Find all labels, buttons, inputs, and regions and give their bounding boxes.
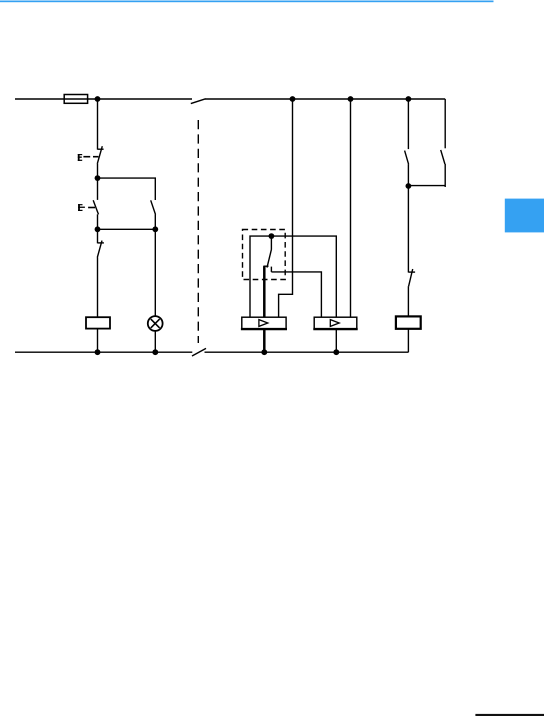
- wire: NC contact K3b to coil K4: [407, 286, 409, 316]
- junction dot node E: [406, 183, 412, 189]
- junction dot top rail / K3 wire: [348, 96, 354, 102]
- NC contact K3b: [408, 269, 415, 286]
- time relay coil K2 (with amplifier triangle): [241, 317, 287, 329]
- top supply rail left segment: [15, 98, 192, 100]
- dashed enclosure of relay contact K2: [243, 230, 286, 280]
- bottom return rail right segment: [205, 351, 409, 353]
- junction dot node C: [152, 226, 158, 232]
- junction dot coil K2 / bottom rail: [261, 349, 267, 355]
- time relay coil K3 (with amplifier triangle): [313, 317, 357, 329]
- control section divider (dashed): [197, 120, 199, 343]
- wire: node E down to NC contact K3b: [407, 186, 409, 273]
- junction dot coil K1 / bottom rail: [95, 349, 101, 355]
- wire: node D right and down to coil K3: [271, 236, 336, 317]
- top supply rail right segment: [205, 98, 445, 100]
- coil K1: [86, 317, 110, 328]
- bottom return rail left segment: [15, 351, 192, 353]
- lamp H1: [148, 316, 163, 331]
- wire: node A down to S1: [97, 178, 99, 200]
- NO contact K2a: [405, 151, 409, 165]
- mechanical dash of contact S1: [88, 207, 95, 209]
- junction dot node A: [95, 175, 101, 181]
- junction dot coil K3 / bottom rail: [333, 349, 339, 355]
- thick wire: coil K2 to bottom rail: [263, 329, 266, 352]
- junction dot top rail / right branch: [406, 96, 412, 102]
- wire: NC contact to coil K1: [97, 257, 99, 317]
- wire: K2a to node E: [407, 164, 409, 186]
- NO holding contact K1 (lamp branch): [151, 200, 156, 214]
- junction dot top rail / fuse branch: [95, 96, 101, 102]
- blue header rule: [0, 1, 494, 3]
- changeover contact K2: blade: [267, 250, 271, 268]
- wire: node B to node C: [98, 228, 156, 230]
- wire: coil K4 to bottom rail: [407, 329, 409, 352]
- thick wire: contact tip to coil K2: [263, 266, 266, 317]
- NC emergency contact S0 (E): [83, 146, 103, 164]
- wire: node A to lamp branch corner: [98, 178, 156, 200]
- junction dot lamp / bottom rail: [152, 349, 158, 355]
- fuse F1: [64, 95, 87, 104]
- NO start contact S1 (E): [93, 200, 98, 214]
- label E of contact S1: [78, 204, 85, 211]
- bottom rail break slash: [192, 348, 206, 356]
- junction dot top rail / K2 wire: [290, 96, 296, 102]
- blue section tab: [505, 199, 544, 233]
- wire: K1 contact to node C: [154, 214, 156, 229]
- junction dot node B: [95, 226, 101, 232]
- wire: node D left and down to coil K2: [250, 236, 271, 317]
- wire: K3a down and left to node E: [408, 164, 445, 187]
- NC contact K3 in K1 branch: [97, 241, 104, 258]
- wire: node B to NC contact K3: [97, 229, 99, 243]
- wire: top rail node down to NO contact K2a: [407, 99, 409, 149]
- wire: node C to lamp H1: [154, 229, 156, 316]
- wire: top rail down to coil K3: [350, 99, 352, 317]
- changeover contact K2: moving tip cap: [263, 265, 268, 267]
- changeover contact K2: upper terminal: [270, 236, 272, 249]
- wire: coil K1 to bottom rail: [97, 329, 99, 353]
- wire: lower terminal right and down to coil K3: [271, 272, 321, 317]
- bottom-right page rule: [475, 714, 544, 716]
- junction dot node D inside enclosure: [269, 233, 275, 239]
- wire: top rail corner down to NO contact K3a: [444, 99, 446, 148]
- wire: S0 to node A: [97, 164, 99, 179]
- label E of contact S0: [78, 154, 82, 161]
- coil K4: [396, 316, 421, 328]
- wire: fuse to first contact: [97, 99, 99, 150]
- NO contact K3a: [441, 150, 445, 164]
- changeover contact K2: lower terminal: [270, 267, 272, 272]
- wire: lamp H1 to bottom rail: [154, 331, 156, 352]
- wire: top rail down, left to coil K2: [279, 99, 293, 317]
- top rail break slash: [191, 99, 206, 104]
- wire: coil K3 to bottom rail: [335, 329, 337, 352]
- wire: S1 to node B: [97, 214, 99, 229]
